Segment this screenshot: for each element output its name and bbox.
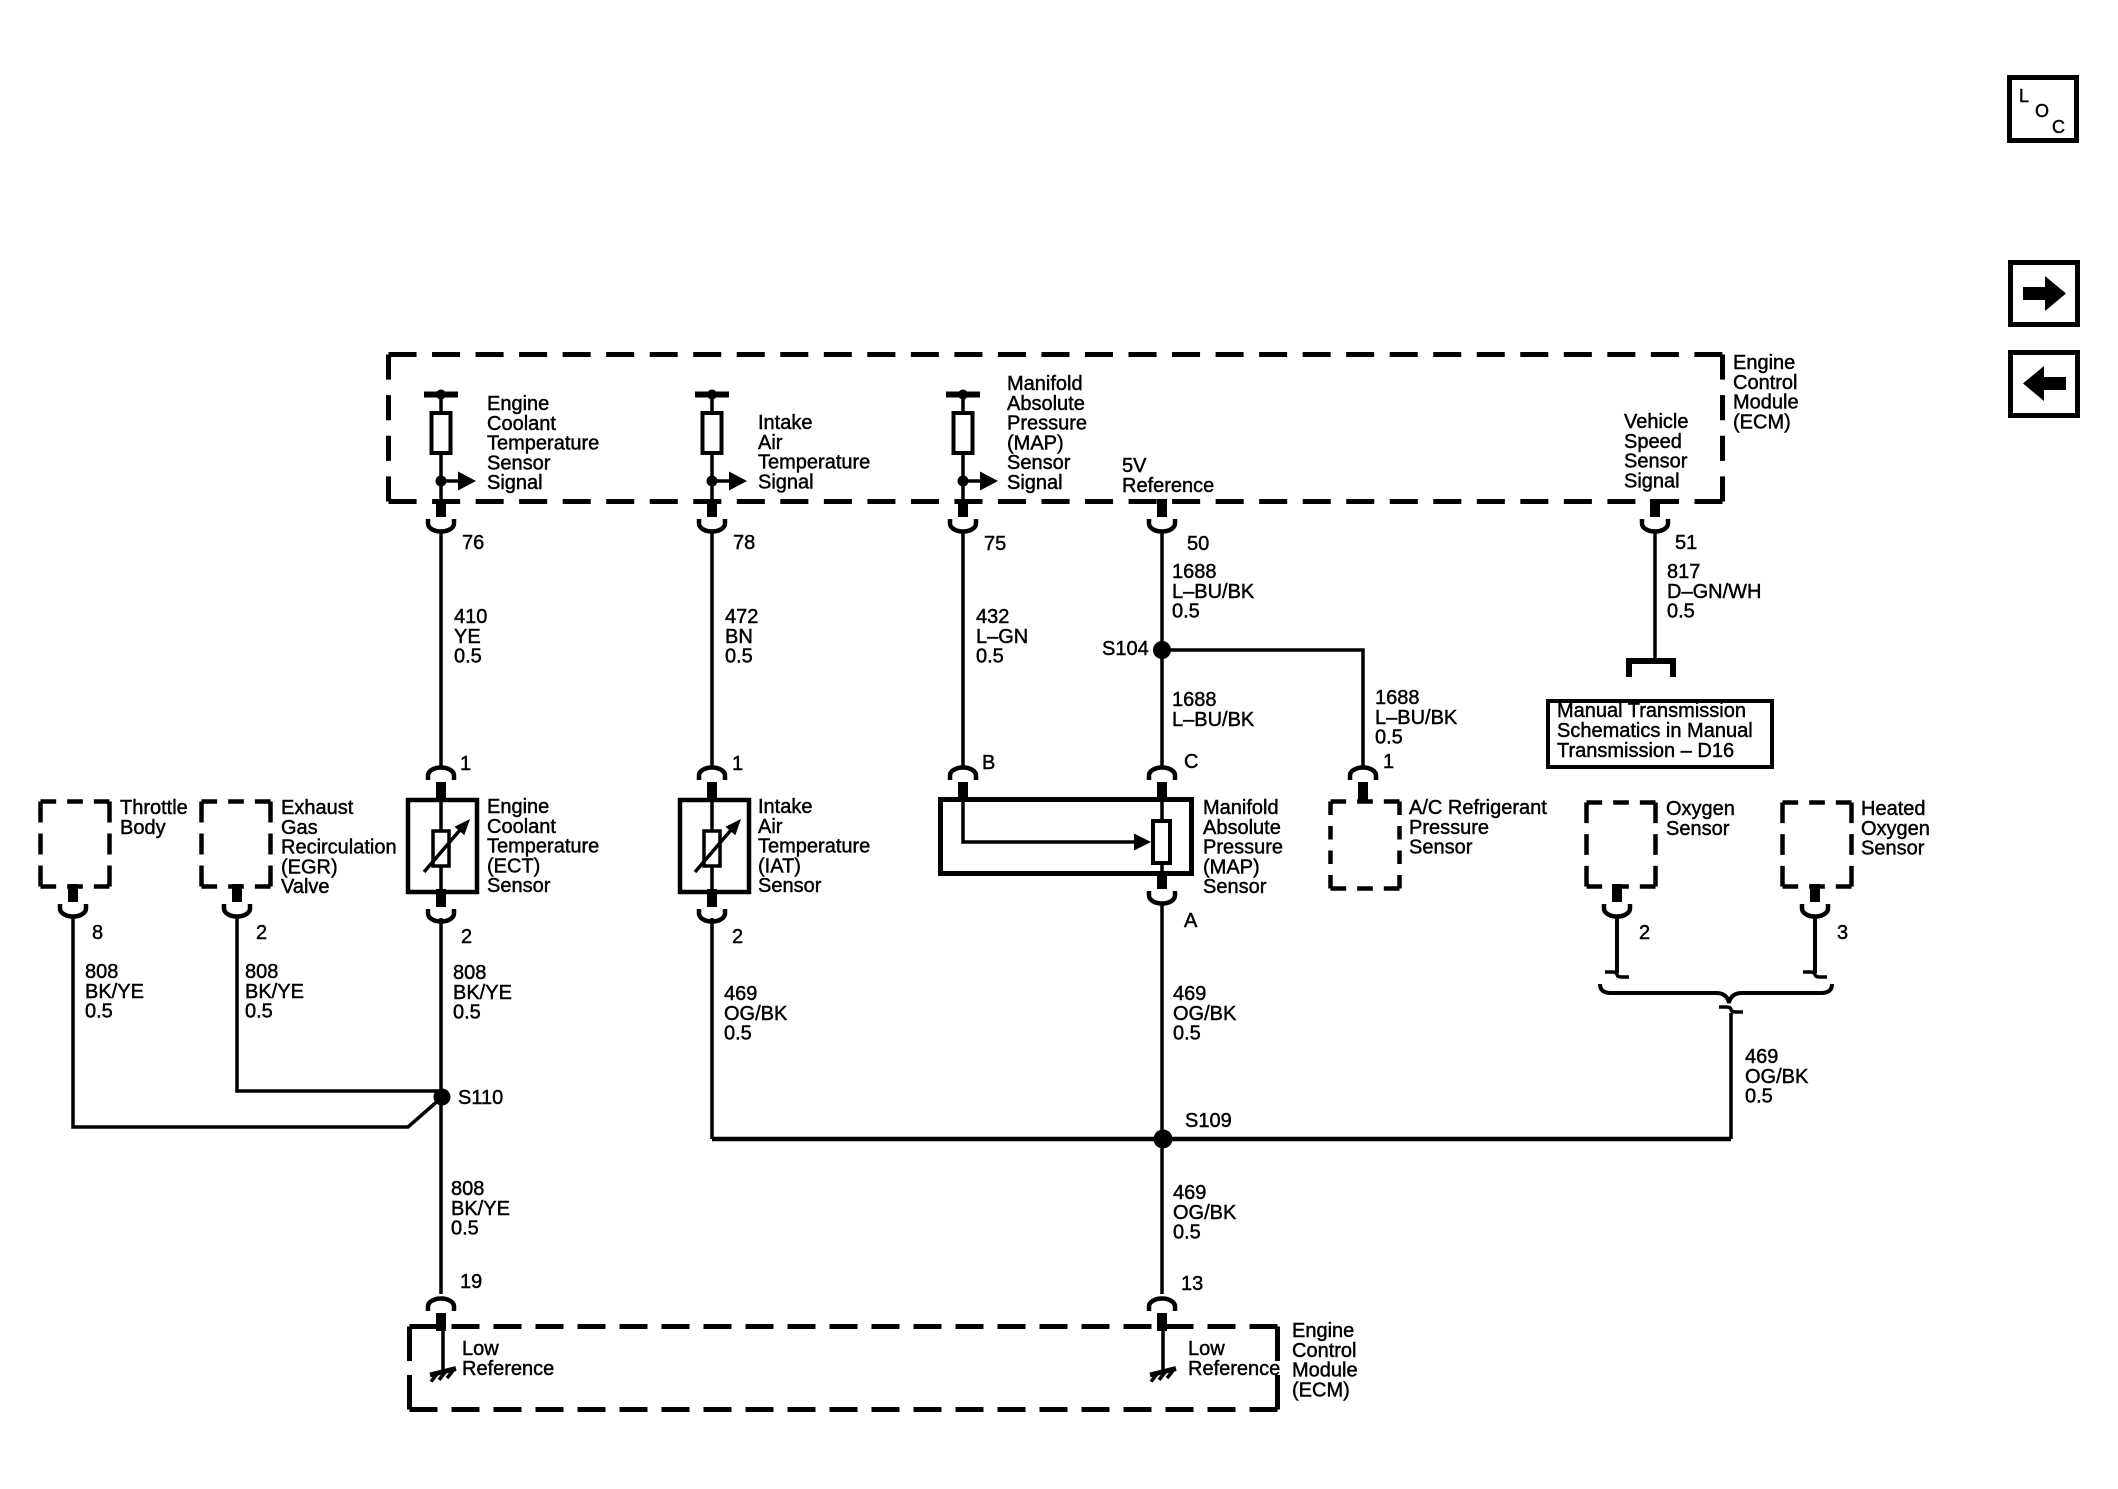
manual transmission reference box	[1548, 700, 1772, 767]
svg-text:13: 13	[1181, 1273, 1203, 1295]
svg-text:Intake: Intake	[758, 412, 812, 434]
svg-text:Oxygen: Oxygen	[1666, 798, 1735, 820]
harness brace joining O2 wires	[1600, 984, 1832, 1003]
svg-text:Signal: Signal	[487, 472, 543, 494]
svg-text:808: 808	[245, 961, 278, 983]
low reference ground symbol right	[1150, 1328, 1176, 1382]
heated O2 sensor pigtail wire	[1803, 918, 1827, 977]
svg-text:1: 1	[732, 753, 743, 775]
wire 808 BK/YE from ECT sensor	[441, 918, 512, 1294]
svg-text:0.5: 0.5	[1172, 601, 1200, 623]
wire 808 BK/YE from EGR	[237, 918, 439, 1091]
svg-text:0.5: 0.5	[1667, 601, 1695, 623]
svg-text:1688: 1688	[1172, 689, 1217, 711]
svg-text:Recirculation: Recirculation	[281, 837, 397, 859]
svg-text:Temperature: Temperature	[487, 836, 599, 858]
svg-text:Intake: Intake	[758, 796, 812, 818]
svg-text:BK/YE: BK/YE	[451, 1198, 510, 1220]
svg-text:0.5: 0.5	[1173, 1222, 1201, 1244]
svg-text:Throttle: Throttle	[120, 797, 188, 819]
svg-text:L: L	[2019, 86, 2029, 106]
svg-text:Temperature: Temperature	[487, 433, 599, 455]
svg-text:Control: Control	[1733, 372, 1797, 394]
svg-text:2: 2	[256, 922, 267, 944]
svg-text:0.5: 0.5	[454, 646, 482, 668]
svg-text:1: 1	[460, 753, 471, 775]
svg-text:(ECM): (ECM)	[1733, 411, 1791, 433]
svg-text:Low: Low	[1188, 1338, 1225, 1360]
svg-text:Engine: Engine	[487, 796, 549, 818]
svg-text:YE: YE	[454, 626, 481, 648]
wire 808 BK/YE from throttle body	[73, 918, 440, 1127]
svg-text:Manifold: Manifold	[1007, 373, 1083, 395]
svg-text:Signal: Signal	[1624, 470, 1680, 492]
svg-text:Body: Body	[120, 817, 166, 839]
MAP pull-up resistor in ECM	[946, 390, 980, 501]
ECM pin 51	[1642, 499, 1697, 554]
svg-text:L–BU/BK: L–BU/BK	[1375, 707, 1458, 729]
svg-text:Signal: Signal	[758, 471, 814, 493]
O2 sensor pin 2	[1604, 884, 1650, 944]
svg-text:75: 75	[984, 533, 1006, 555]
svg-text:1688: 1688	[1172, 561, 1217, 583]
svg-text:(IAT): (IAT)	[758, 855, 801, 877]
ECT signal arrow	[436, 472, 477, 491]
ECT thermistor symbol	[424, 800, 470, 892]
svg-text:410: 410	[454, 606, 487, 628]
ECT sensor label	[487, 796, 599, 897]
svg-text:469: 469	[724, 983, 757, 1005]
IAT sensor pin 1	[699, 753, 743, 800]
svg-text:OG/BK: OG/BK	[1173, 1003, 1237, 1025]
low reference label left	[462, 1338, 554, 1380]
off-page connector bracket (VSS to manual trans)	[1629, 661, 1673, 677]
svg-text:808: 808	[85, 961, 118, 983]
svg-text:0.5: 0.5	[976, 646, 1004, 668]
svg-text:Air: Air	[758, 432, 783, 454]
svg-text:0.5: 0.5	[724, 1023, 752, 1045]
svg-text:0.5: 0.5	[725, 646, 753, 668]
svg-text:Heated: Heated	[1861, 798, 1926, 820]
svg-text:Sensor: Sensor	[1861, 838, 1925, 860]
svg-text:Low: Low	[462, 1338, 499, 1360]
svg-text:469: 469	[1173, 983, 1206, 1005]
svg-text:3: 3	[1837, 922, 1848, 944]
svg-text:808: 808	[453, 962, 486, 984]
IAT sensor pin 2	[699, 889, 743, 948]
svg-text:Valve: Valve	[281, 876, 330, 898]
svg-text:C: C	[2052, 117, 2065, 137]
svg-text:Manual Transmission: Manual Transmission	[1557, 700, 1746, 722]
svg-text:76: 76	[462, 532, 484, 554]
low reference label right	[1188, 1338, 1280, 1380]
svg-text:(ECM): (ECM)	[1292, 1379, 1350, 1401]
IAT pull-up resistor in ECM	[695, 390, 729, 501]
svg-text:Sensor: Sensor	[1007, 452, 1071, 474]
svg-text:OG/BK: OG/BK	[724, 1003, 788, 1025]
svg-text:Temperature: Temperature	[758, 452, 870, 474]
wire 410 YE (ECT signal)	[441, 533, 487, 767]
svg-text:OG/BK: OG/BK	[1173, 1202, 1237, 1224]
svg-text:Pressure: Pressure	[1203, 837, 1283, 859]
ECM (Engine Control Module) bottom dashed box	[410, 1327, 1278, 1410]
svg-text:Sensor: Sensor	[1624, 451, 1688, 473]
svg-text:51: 51	[1675, 532, 1697, 554]
svg-text:(MAP): (MAP)	[1203, 856, 1260, 878]
forward arrow icon	[2011, 263, 2078, 325]
svg-text:C: C	[1184, 751, 1198, 773]
svg-text:S109: S109	[1185, 1110, 1232, 1132]
MAP sensor box	[941, 800, 1192, 874]
MAP signal net label	[1007, 373, 1087, 494]
throttle body pin 8	[60, 884, 103, 944]
svg-text:Sensor: Sensor	[758, 875, 822, 897]
wire 469 OG/BK from O2 junction	[1719, 1007, 1809, 1139]
low reference bus wire	[712, 1137, 1731, 1142]
heated oxygen sensor (dashed box)	[1783, 798, 1930, 887]
svg-text:78: 78	[733, 532, 755, 554]
ECM pin 19	[428, 1271, 482, 1331]
ECM label top right	[1733, 352, 1799, 433]
svg-text:Exhaust: Exhaust	[281, 797, 354, 819]
svg-text:S104: S104	[1102, 638, 1149, 660]
svg-text:Engine: Engine	[487, 393, 549, 415]
svg-text:808: 808	[451, 1178, 484, 1200]
svg-text:0.5: 0.5	[245, 1001, 273, 1023]
ECT sensor pin 1	[428, 753, 471, 800]
ECM (Engine Control Module) top dashed box	[389, 355, 1723, 502]
splice S110	[434, 1087, 504, 1109]
oxygen sensor (dashed box)	[1587, 798, 1735, 887]
svg-text:469: 469	[1745, 1046, 1778, 1068]
svg-text:Module: Module	[1733, 392, 1799, 414]
svg-text:817: 817	[1667, 561, 1700, 583]
svg-text:Absolute: Absolute	[1203, 817, 1281, 839]
svg-text:Air: Air	[758, 816, 783, 838]
A/C pressure sensor pin 1	[1350, 751, 1394, 800]
svg-text:Reference: Reference	[1188, 1358, 1280, 1380]
wire 808 BK/YE below S110	[451, 1178, 510, 1240]
wire 469 OG/BK from MAP sensor	[1162, 905, 1237, 1294]
EGR pin 2	[224, 884, 267, 944]
ECM pin 78	[699, 499, 755, 554]
svg-text:L–BU/BK: L–BU/BK	[1172, 581, 1255, 603]
svg-text:A/C Refrigerant: A/C Refrigerant	[1409, 797, 1547, 819]
MAP sensor pin B	[950, 752, 995, 800]
svg-text:OG/BK: OG/BK	[1745, 1066, 1809, 1088]
svg-text:Engine: Engine	[1733, 352, 1795, 374]
svg-text:Manifold: Manifold	[1203, 797, 1279, 819]
svg-text:(EGR): (EGR)	[281, 856, 338, 878]
svg-text:2: 2	[1639, 922, 1650, 944]
svg-text:19: 19	[460, 1271, 482, 1293]
ECT sensor box	[408, 800, 477, 892]
svg-text:Sensor: Sensor	[1666, 818, 1730, 840]
wire 469 OG/BK below S109	[1173, 1182, 1237, 1244]
svg-text:Pressure: Pressure	[1409, 817, 1489, 839]
svg-text:(MAP): (MAP)	[1007, 432, 1064, 454]
low reference ground symbol left	[430, 1328, 456, 1382]
svg-text:0.5: 0.5	[85, 1001, 113, 1023]
A/C refrigerant pressure sensor (dashed box)	[1331, 797, 1548, 889]
ECM pin 13	[1149, 1273, 1203, 1331]
svg-text:472: 472	[725, 606, 758, 628]
ECM pin 75	[950, 499, 1006, 555]
svg-text:A: A	[1184, 910, 1198, 932]
svg-text:Gas: Gas	[281, 817, 318, 839]
svg-text:BK/YE: BK/YE	[245, 981, 304, 1003]
svg-text:BK/YE: BK/YE	[85, 981, 144, 1003]
svg-text:O: O	[2035, 101, 2049, 121]
svg-text:0.5: 0.5	[451, 1218, 479, 1240]
5V Reference net label	[1122, 455, 1214, 497]
MAP sensing element	[963, 799, 1170, 874]
svg-text:Temperature: Temperature	[758, 836, 870, 858]
ECT pull-up resistor in ECM	[424, 390, 458, 501]
svg-text:0.5: 0.5	[1173, 1023, 1201, 1045]
svg-text:Reference: Reference	[1122, 475, 1214, 497]
ECM pin 50	[1149, 499, 1209, 555]
MAP signal arrow	[958, 472, 999, 491]
svg-text:Absolute: Absolute	[1007, 393, 1085, 415]
O2 sensor pigtail wire	[1605, 918, 1629, 977]
svg-text:Sensor: Sensor	[1203, 876, 1267, 898]
throttle body (dashed box)	[41, 797, 188, 887]
svg-text:469: 469	[1173, 1182, 1206, 1204]
svg-text:432: 432	[976, 606, 1009, 628]
svg-text:1688: 1688	[1375, 687, 1420, 709]
svg-text:Transmission – D16: Transmission – D16	[1557, 740, 1734, 762]
svg-text:B: B	[982, 752, 995, 774]
svg-text:Signal: Signal	[1007, 472, 1063, 494]
ECM label bottom right	[1292, 1320, 1358, 1401]
svg-text:5V: 5V	[1122, 455, 1147, 477]
svg-text:0.5: 0.5	[453, 1002, 481, 1024]
IAT sensor box	[680, 800, 749, 892]
svg-text:Schematics in Manual: Schematics in Manual	[1557, 720, 1753, 742]
IAT thermistor symbol	[695, 800, 741, 892]
EGR valve (dashed box)	[202, 797, 397, 898]
svg-text:0.5: 0.5	[1375, 727, 1403, 749]
svg-text:Module: Module	[1292, 1360, 1358, 1382]
ECM pin 76	[428, 499, 484, 554]
svg-text:Pressure: Pressure	[1007, 413, 1087, 435]
svg-text:2: 2	[732, 926, 743, 948]
svg-text:(ECT): (ECT)	[487, 855, 540, 877]
svg-text:Speed: Speed	[1624, 431, 1682, 453]
LOC reference icon	[2010, 78, 2077, 141]
MAP sensor label	[1203, 797, 1283, 898]
ECT signal net label	[487, 393, 599, 494]
VSS signal net label	[1624, 411, 1689, 492]
ECT sensor pin 2	[428, 889, 472, 948]
wire 1688 L-BU/BK (below S104)	[1172, 689, 1255, 731]
IAT signal arrow	[707, 472, 748, 491]
wire 1688 L-BU/BK (5V ref upper)	[1162, 533, 1255, 767]
svg-text:BN: BN	[725, 626, 753, 648]
wire 817 D-GN/WH (VSS signal)	[1655, 533, 1761, 659]
svg-text:L–GN: L–GN	[976, 626, 1028, 648]
svg-text:2: 2	[461, 926, 472, 948]
svg-text:Coolant: Coolant	[487, 816, 556, 838]
svg-text:BK/YE: BK/YE	[453, 982, 512, 1004]
svg-text:Sensor: Sensor	[1409, 837, 1473, 859]
svg-text:Coolant: Coolant	[487, 413, 556, 435]
MAP sensor pin A	[1149, 871, 1198, 932]
heated O2 sensor pin 3	[1802, 884, 1848, 944]
wire 472 BN (IAT signal)	[712, 533, 758, 767]
IAT signal net label	[758, 412, 870, 493]
MAP sensor pin C	[1149, 751, 1198, 800]
svg-text:D–GN/WH: D–GN/WH	[1667, 581, 1761, 603]
svg-text:Oxygen: Oxygen	[1861, 818, 1930, 840]
wire 432 L-GN (MAP signal)	[963, 533, 1028, 767]
svg-text:L–BU/BK: L–BU/BK	[1172, 709, 1255, 731]
wire 469 OG/BK from IAT sensor	[712, 918, 788, 1139]
IAT sensor label	[758, 796, 870, 897]
svg-text:Engine: Engine	[1292, 1320, 1354, 1342]
svg-text:Vehicle: Vehicle	[1624, 411, 1689, 433]
svg-text:1: 1	[1383, 751, 1394, 773]
svg-text:8: 8	[92, 922, 103, 944]
svg-text:50: 50	[1187, 533, 1209, 555]
svg-text:Control: Control	[1292, 1340, 1356, 1362]
back arrow icon	[2011, 353, 2078, 416]
svg-text:Reference: Reference	[462, 1358, 554, 1380]
svg-text:Sensor: Sensor	[487, 452, 551, 474]
svg-text:Sensor: Sensor	[487, 875, 551, 897]
splice S104	[1102, 638, 1171, 660]
wire 1688 L-BU/BK branch to A/C sensor	[1162, 650, 1458, 767]
svg-text:S110: S110	[458, 1087, 503, 1109]
svg-text:0.5: 0.5	[1745, 1086, 1773, 1108]
splice S109	[1154, 1110, 1232, 1149]
